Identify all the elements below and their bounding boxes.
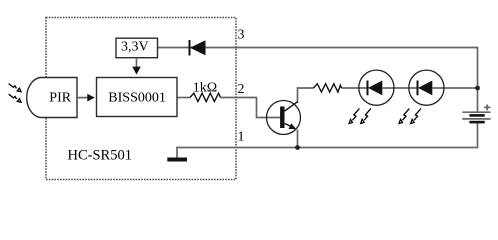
- ground symbol: [167, 158, 187, 162]
- IC BISS0001 box: [97, 78, 178, 117]
- wire supply rail pin3 (3,3V to diode to battery plus): [158, 48, 478, 113]
- diode D1: [190, 40, 206, 56]
- svg-text:3,3V: 3,3V: [121, 40, 149, 55]
- IR ray arrow 1 into PIR: [9, 84, 21, 92]
- light emission arrows of LED D2: [349, 109, 371, 124]
- wire BISS0001 output to resistor R1: [177, 97, 190, 99]
- transistor Q1: [267, 101, 301, 135]
- wire resistor R2 to LED D2: [342, 87, 368, 89]
- wire pin2 to transistor base: [221, 98, 282, 118]
- svg-text:1: 1: [238, 130, 245, 145]
- light emission arrows of LED D3: [399, 109, 421, 124]
- pir sensor PIR: [27, 78, 77, 118]
- wire LED D3 to battery rail: [433, 87, 478, 89]
- battery BT1: [462, 112, 490, 122]
- arrow PIR to BISS0001: [77, 94, 95, 102]
- module outline HC-SR501 (dashed box): [46, 18, 236, 180]
- svg-text:3: 3: [238, 28, 245, 43]
- resistor R2 zigzag: [314, 84, 342, 92]
- svg-text:PIR: PIR: [49, 90, 71, 105]
- junction dot emitter to ground rail: [295, 145, 300, 150]
- IR ray arrow 2 into PIR: [9, 94, 21, 102]
- svg-text:BISS0001: BISS0001: [108, 90, 166, 105]
- wire emitter to ground rail: [297, 130, 299, 148]
- LED D3: [409, 70, 444, 105]
- svg-text:HC-SR501: HC-SR501: [68, 148, 132, 164]
- wire battery minus to ground rail: [177, 122, 478, 157]
- label battery positive +: [484, 105, 490, 111]
- LED D2: [359, 70, 394, 105]
- junction dot LED rail to battery rail: [475, 86, 480, 91]
- svg-text:2: 2: [238, 82, 245, 97]
- wire LED D2 to LED D3: [383, 87, 418, 89]
- svg-text:1kΩ: 1kΩ: [193, 80, 217, 95]
- arrow 3,3V to BISS0001: [132, 58, 141, 75]
- resistor R1 zigzag: [190, 93, 221, 101]
- wire collector to resistor R2: [298, 88, 314, 103]
- voltage regulator 3,3V box: [116, 38, 158, 58]
